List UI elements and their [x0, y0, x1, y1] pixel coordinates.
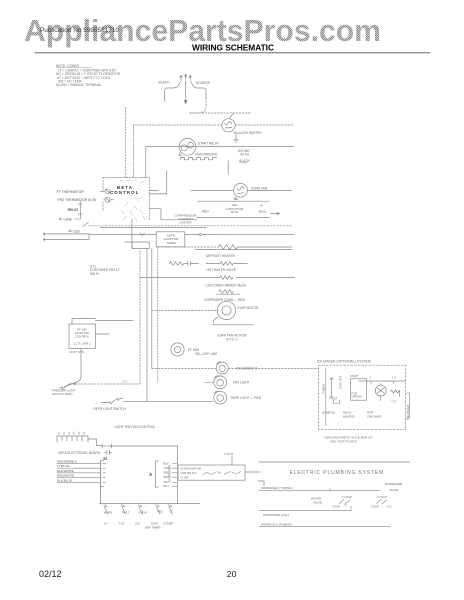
inline connector pair [102, 444, 178, 461]
svg-text:2 1: 2 1 [104, 457, 108, 461]
ground at plug center prong [184, 81, 187, 104]
small bin box [334, 400, 340, 404]
wire run y227.5 [100, 227, 206, 229]
svg-text:RED/WHITE: RED/WHITE [57, 474, 74, 478]
svg-text:EVAP MOTOR: EVAP MOTOR [238, 306, 260, 310]
defrost timer box TD1 [156, 232, 185, 247]
dispenser box internals [181, 467, 202, 480]
defrost heater R2 row [158, 245, 292, 250]
compressor motor M1 [179, 138, 196, 155]
dispenser heater R3 row [216, 290, 240, 294]
svg-text:START: START [350, 374, 359, 378]
svg-text:A: A [150, 473, 153, 477]
plumbing switch 2 labels [371, 495, 392, 509]
BETA control board U1 [103, 177, 149, 219]
wire run y234.6 with inline arrow [89, 233, 294, 236]
svg-text:ELECTRIC PLUMBING SYSTEM: ELECTRIC PLUMBING SYSTEM [290, 470, 385, 476]
wire stub x228 [227, 161, 229, 174]
svg-text:POWER: POWER [321, 384, 325, 394]
svg-text:2: 2 [370, 376, 372, 380]
svg-text:LT/DEF: LT/DEF [164, 522, 174, 526]
publication number [40, 28, 120, 34]
evaporator fan motor M3 [152, 301, 254, 325]
icemaker top rail [359, 381, 406, 384]
svg-text:BLACK: BLACK [239, 159, 250, 163]
FF thermistor symbol [100, 189, 114, 194]
label ice motor [367, 411, 381, 419]
svg-text:T STAT: T STAT [224, 452, 234, 456]
svg-text:COUP: COUP [332, 505, 340, 509]
svg-text:BLU: BLU [164, 484, 170, 488]
svg-text:BLK/WHITE: BLK/WHITE [57, 469, 74, 473]
label BLK [259, 204, 267, 214]
FRZ thermistor symbol [104, 197, 115, 202]
freezer light switch S3 [60, 383, 141, 389]
hot water valve L1 coil [206, 262, 247, 266]
FF lighting control box U2 [64, 319, 133, 388]
ground under cond fan [234, 197, 239, 200]
run capacitor C1 labels [226, 203, 245, 214]
svg-text:VALVE: VALVE [313, 501, 322, 505]
icemaker motor M5 [375, 384, 386, 401]
svg-text:REFR LIGHT — RED: REFR LIGHT — RED [231, 396, 262, 400]
svg-text:CM: CM [135, 522, 140, 526]
svg-text:LT BLUE: LT BLUE [57, 464, 69, 468]
label pins 2 1 [370, 376, 397, 380]
dispenser box switches [203, 472, 241, 476]
wire line side dashed rail down to control [124, 108, 126, 178]
svg-text:LINE: LINE [65, 217, 73, 221]
wire run y225.8 dashed [89, 225, 293, 227]
wire control to compressor [149, 171, 166, 194]
harness wire labels [57, 460, 78, 483]
svg-text:B: B [261, 204, 263, 208]
title WIRING SCHEMATIC [192, 43, 275, 53]
svg-text:REFR LIGHT SWITCH: REFR LIGHT SWITCH [94, 407, 127, 411]
dispenser control box U3 [178, 456, 264, 487]
label lighting control [73, 328, 90, 346]
FF fan motor M4 [171, 343, 184, 356]
label freezer light switch [52, 389, 76, 397]
label mold heater [343, 411, 355, 419]
switch S1 relay contact [83, 222, 89, 227]
refr light switch S4 [101, 398, 213, 404]
svg-text:ON—OFF LINE: ON—OFF LINE [195, 352, 217, 356]
svg-text:LED: LED [74, 229, 81, 233]
svg-text:20: 20 [227, 569, 237, 579]
label mold open [352, 392, 362, 399]
svg-text:02/12: 02/12 [39, 569, 62, 579]
svg-text:DISPENSER (TUBING): DISPENSER (TUBING) [261, 486, 293, 490]
notes legend block [56, 64, 121, 87]
svg-text:FF THERMISTOR: FF THERMISTOR [57, 190, 85, 194]
svg-text:VALVE: VALVE [389, 488, 398, 492]
icemaker mold box [351, 379, 367, 400]
svg-text:ICE MAKER: ICE MAKER [406, 405, 410, 420]
wire main run y146.6 [146, 147, 294, 178]
label defrost timer [164, 234, 179, 245]
control bottom sub box [125, 219, 149, 248]
svg-text:HEATER: HEATER [343, 415, 355, 419]
switch row on housing [104, 504, 173, 514]
svg-text:BI-METAL: BI-METAL [322, 411, 336, 415]
plumbing row 2 [259, 506, 351, 517]
svg-text:L4: L4 [104, 522, 108, 526]
icemaker right stub [406, 393, 410, 418]
svg-text:FF FAN: FF FAN [188, 348, 200, 352]
wire arrow right of capacitor [271, 212, 280, 214]
svg-text:HOT WATER VALVE: HOT WATER VALVE [207, 268, 236, 272]
svg-text:CONTROL: CONTROL [110, 190, 139, 195]
connector bracket A [150, 461, 159, 487]
connector pin ticks [172, 464, 177, 487]
svg-text:S P E C: S P E C [226, 338, 238, 342]
label customer frz lt switch [90, 265, 120, 276]
title underline [35, 52, 430, 54]
svg-text:DOOR AJAR SW: DOOR AJAR SW [181, 467, 202, 471]
svg-text:BLK/BLUE: BLK/BLUE [57, 478, 72, 482]
svg-text:LT SW: LT SW [181, 476, 189, 480]
svg-text:NOTE: CODES: NOTE: CODES [56, 64, 80, 68]
switch row labels [104, 510, 173, 515]
thermal cutoff TCO [330, 378, 334, 397]
svg-text:DISPENSER: DISPENSER [168, 465, 172, 481]
wire stub control right 2 [149, 209, 196, 220]
svg-text:FRZ: FRZ [157, 510, 163, 514]
svg-text:MULLION HEATER: MULLION HEATER [234, 131, 262, 135]
svg-text:TIMER: TIMER [166, 241, 176, 245]
plumbing switch labels [332, 495, 352, 509]
svg-text:OPEN/M: OPEN/M [352, 395, 362, 399]
wire run capacitor bottom [197, 216, 270, 218]
svg-text:DEF TIMER: DEF TIMER [145, 526, 161, 530]
plumbing row 1 line [259, 489, 380, 491]
svg-text:MODE: MODE [104, 511, 113, 515]
svg-text:60 HZ: 60 HZ [241, 152, 250, 156]
connector pin list [164, 462, 171, 489]
plumbing section top rule [259, 461, 410, 463]
svg-text:FRZ LIGHT: FRZ LIGHT [233, 381, 250, 385]
relay wire [79, 201, 83, 220]
svg-text:CONTROL: CONTROL [75, 335, 90, 339]
svg-text:RUN WINDING: RUN WINDING [196, 153, 218, 157]
label LINE with arrow [59, 217, 80, 221]
svg-text:Publication No 5995581710: Publication No 5995581710 [40, 28, 120, 34]
wire plug right leg [190, 81, 207, 113]
board edge connector comb [57, 432, 101, 446]
svg-text:* T.X: * T.X [391, 400, 397, 404]
svg-text:COND FAN: COND FAN [251, 186, 268, 190]
label BETA CONTROL [110, 185, 139, 195]
connector bracket left [101, 461, 106, 505]
ice maker receptacle J1 [216, 362, 228, 374]
svg-text:WIRING SCHEMATIC: WIRING SCHEMATIC [192, 43, 275, 53]
svg-text:DEFROST HEATER: DEFROST HEATER [206, 254, 235, 258]
footer date [39, 569, 62, 579]
power cord plug P1 [180, 74, 192, 80]
customer water valve L2 row [140, 276, 295, 280]
svg-text:COUP: COUP [371, 505, 379, 509]
svg-text:DISPENSER (FILL): DISPENSER (FILL) [263, 513, 289, 517]
ground under mullion heater [234, 135, 238, 143]
plumbing switch 2 [376, 500, 387, 505]
condenser fan motor M2 [191, 183, 292, 197]
svg-text:BLACK: BLACK [159, 80, 171, 84]
plumbing switch 1 [339, 500, 350, 506]
wire run capacitor top [198, 200, 270, 202]
svg-text:RUN: RUN [231, 210, 238, 214]
svg-text:WATER VLV (TUBING): WATER VLV (TUBING) [261, 522, 292, 526]
plumbing row 3 [259, 522, 390, 526]
svg-text:ICE MAKER (OPTIONAL) SYSTEM: ICE MAKER (OPTIONAL) SYSTEM [317, 360, 371, 364]
label evap fan motor [218, 334, 248, 342]
wire pair left y234 y239 [43, 233, 89, 241]
svg-text:CUSTOMER WATER VALVE: CUSTOMER WATER VALVE [206, 283, 247, 287]
svg-text:CL71 CFM L: CL71 CFM L [73, 342, 90, 346]
svg-text:ICE MAKER %: ICE MAKER % [236, 366, 257, 370]
svg-text:T 50: T 50 [119, 522, 125, 526]
footer page number [227, 569, 237, 579]
svg-text:LIGHT SW FAN CONTROL: LIGHT SW FAN CONTROL [114, 425, 155, 429]
svg-text:DISPENSER: DISPENSER [385, 482, 403, 486]
svg-text:ORANGE/BLK: ORANGE/BLK [57, 460, 78, 464]
svg-text:BETA ELECTRONIC BOARD: BETA ELECTRONIC BOARD [59, 451, 101, 455]
svg-text:START RELAY: START RELAY [198, 142, 220, 146]
svg-text:ICE M: ICE M [139, 511, 147, 515]
label 115 VAC 60 HZ [238, 149, 251, 157]
plumbing mid labels [311, 497, 322, 505]
svg-text:FRZ THERMISTOR (ICE): FRZ THERMISTOR (ICE) [58, 198, 97, 202]
ice maker feed wire [152, 368, 319, 370]
watermark [24, 13, 381, 48]
svg-text:SLASH = MANUAL TERMINAL: SLASH = MANUAL TERMINAL [56, 83, 102, 87]
PTC starter R1 [181, 158, 217, 160]
svg-text:J COUP: J COUP [342, 495, 352, 499]
svg-text:J COUP: J COUP [377, 495, 387, 499]
svg-text:LIMITER: LIMITER [179, 220, 192, 224]
icemaker heater R4 [391, 390, 400, 397]
wire plug left leg [165, 81, 181, 102]
svg-text:LT: LT [170, 510, 173, 514]
mullion heater H1 [222, 119, 235, 132]
svg-text:AND TEST POINTS: AND TEST POINTS [330, 440, 357, 444]
svg-text:SOURCE: SOURCE [196, 81, 211, 85]
switch row bottom labels [104, 522, 173, 526]
svg-text:HTR SW N.O.: HTR SW N.O. [181, 471, 198, 475]
label compressor current limiter [174, 214, 197, 225]
svg-text:CUST SYS: CUST SYS [69, 350, 84, 354]
wire bundle verticals below control [140, 247, 158, 401]
wire dashed run y125 [134, 125, 294, 177]
footnote denotes [323, 435, 373, 443]
control board interior marks [120, 180, 145, 221]
icemaker inner margin line [325, 368, 327, 426]
svg-text:1 2: 1 2 [392, 376, 396, 380]
svg-text:(BLK): (BLK) [259, 210, 267, 214]
label LED with arrow [69, 229, 81, 233]
svg-text:RELAY: RELAY [68, 208, 80, 212]
svg-text:SWITCH (FRZ): SWITCH (FRZ) [52, 392, 73, 396]
defrost thermostat S2 [169, 261, 198, 265]
freezer light E1 [205, 376, 227, 389]
svg-text:FR LT: FR LT [122, 511, 130, 515]
svg-text:SW %: SW % [90, 272, 99, 276]
plumbing right label [385, 482, 403, 492]
icemaker dashed enclosure [319, 365, 406, 430]
main control housing box [100, 446, 201, 504]
refrigerator light E2 [214, 391, 227, 404]
svg-text:2 2: 2 2 [123, 380, 128, 384]
wire stub control right 1 [149, 190, 158, 192]
svg-text:CRUSHER: CRUSHER [367, 415, 381, 419]
wire neutral dashed run y113 [190, 113, 252, 119]
svg-text:SHUT OFF: SHUT OFF [339, 375, 343, 389]
svg-text:F G: F G [387, 505, 392, 509]
harness wires [57, 464, 100, 483]
svg-text:RED: RED [202, 209, 209, 213]
label BLACK wire [239, 159, 250, 163]
